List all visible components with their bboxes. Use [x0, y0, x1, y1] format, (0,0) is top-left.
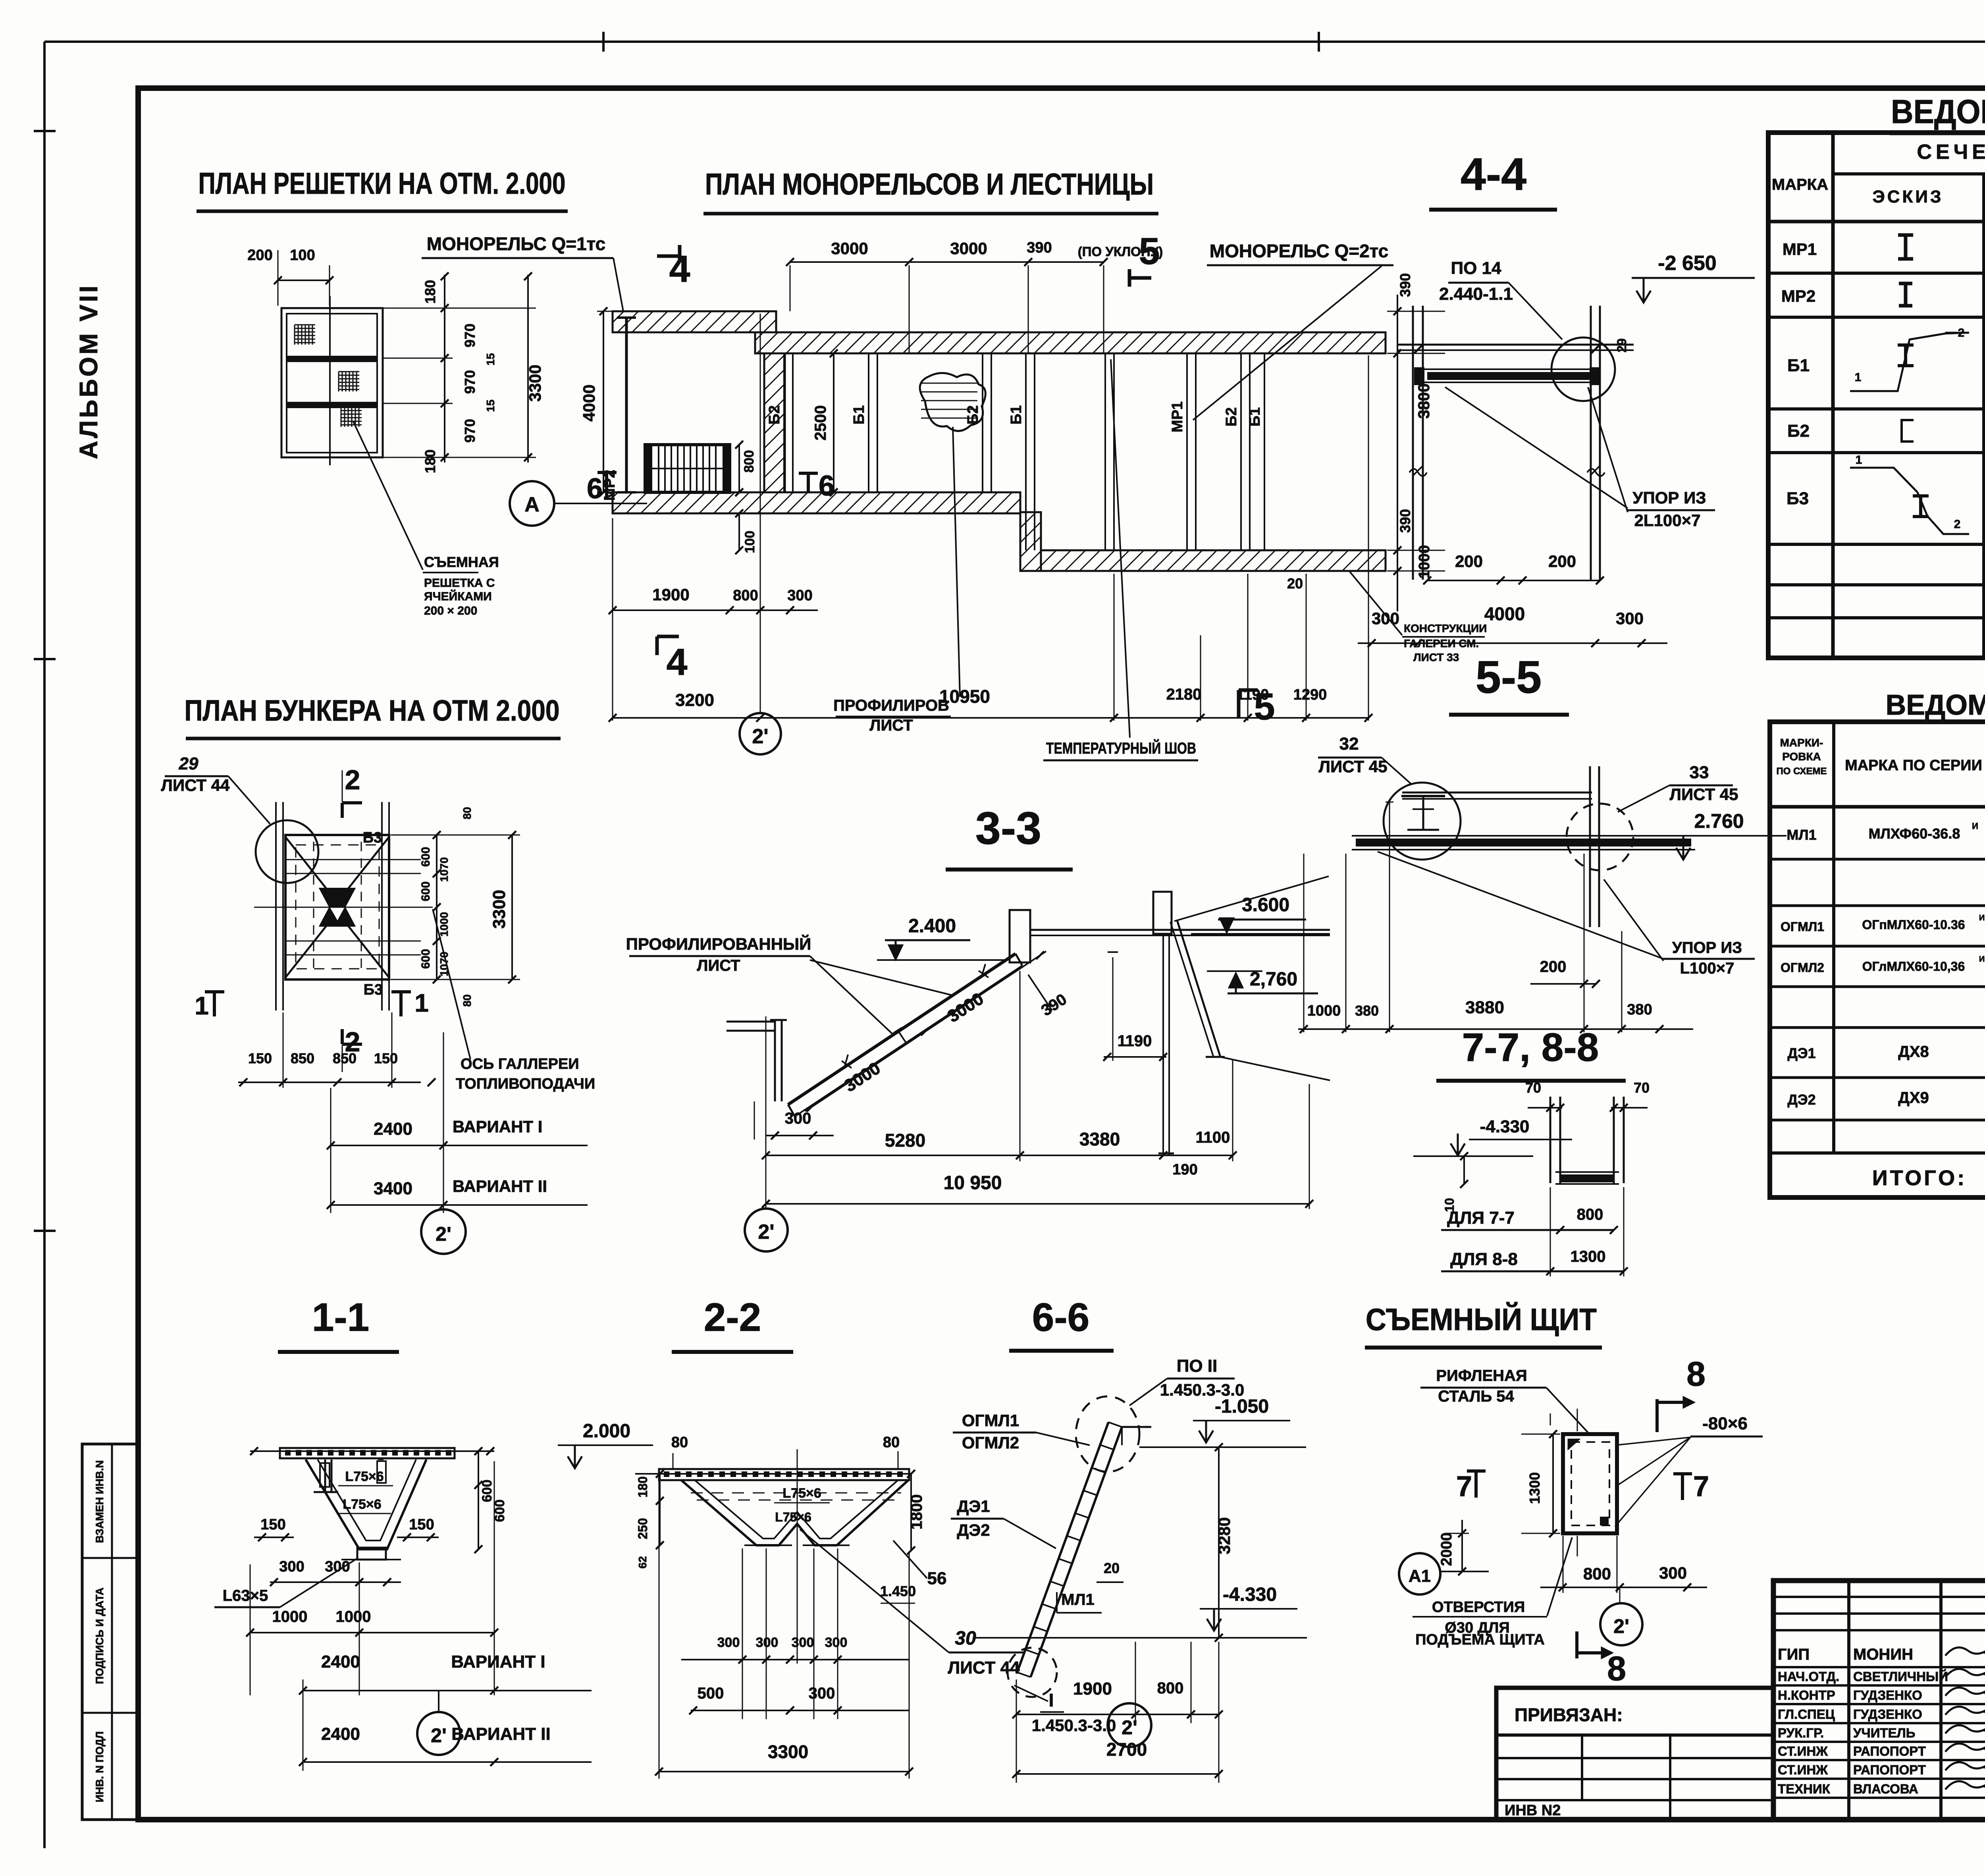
svg-text:ТЕХНИК: ТЕХНИК: [1778, 1782, 1831, 1796]
svg-text:1070: 1070: [438, 857, 450, 882]
svg-text:ОГпМЛХ60-10.36: ОГпМЛХ60-10.36: [1862, 918, 1965, 932]
svg-text:Б3: Б3: [364, 981, 383, 998]
svg-text:ВАРИАНТ I: ВАРИАНТ I: [451, 1652, 545, 1672]
svg-text:390: 390: [1397, 509, 1413, 533]
svg-text:-4.330: -4.330: [1480, 1117, 1530, 1136]
svg-text:А: А: [524, 493, 540, 516]
svg-text:2': 2': [758, 1220, 774, 1244]
svg-text:УЧИТЕЛЬ: УЧИТЕЛЬ: [1853, 1726, 1915, 1740]
svg-text:ВЕДОМОСТЬ ЭЛЕМЕНТОВ ПО СЕРИИ 1: ВЕДОМОСТЬ ЭЛЕМЕНТОВ ПО СЕРИИ 1.4503-3В0: [1886, 689, 1985, 721]
svg-text:МАРКИ-: МАРКИ-: [1780, 737, 1823, 749]
svg-text:L63×5: L63×5: [223, 1587, 268, 1604]
svg-text:СВЕТЛИЧНЫЙ: СВЕТЛИЧНЫЙ: [1853, 1669, 1948, 1684]
svg-text:4-4: 4-4: [1461, 149, 1526, 200]
svg-text:УПОР ИЗ: УПОР ИЗ: [1632, 488, 1706, 507]
svg-text:32: 32: [1339, 734, 1359, 754]
svg-text:10 950: 10 950: [944, 1172, 1002, 1193]
svg-text:300: 300: [787, 587, 812, 604]
svg-text:2': 2': [436, 1223, 451, 1245]
svg-text:80: 80: [461, 994, 473, 1006]
svg-text:ГУДЗЕНКО: ГУДЗЕНКО: [1853, 1707, 1922, 1722]
svg-text:150: 150: [248, 1050, 272, 1066]
svg-text:ПЛАН БУНКЕРА НА ОТМ 2.000: ПЛАН БУНКЕРА НА ОТМ 2.000: [185, 694, 560, 727]
svg-text:СТ.ИНЖ: СТ.ИНЖ: [1778, 1744, 1828, 1758]
svg-text:ИНВ N2: ИНВ N2: [1505, 1802, 1561, 1819]
svg-text:ВЗАМЕН ИНВ.N: ВЗАМЕН ИНВ.N: [94, 1460, 106, 1543]
svg-text:И: И: [1979, 955, 1985, 964]
svg-text:150: 150: [374, 1050, 398, 1066]
svg-text:СЕЧЕНИЕ: СЕЧЕНИЕ: [1917, 141, 1985, 164]
svg-text:РАПОПОРТ: РАПОПОРТ: [1853, 1744, 1926, 1758]
svg-text:I: I: [1049, 1690, 1054, 1710]
svg-text:5-5: 5-5: [1476, 652, 1542, 703]
svg-text:100: 100: [742, 531, 757, 553]
svg-text:4000: 4000: [1484, 603, 1525, 624]
svg-text:180: 180: [422, 449, 438, 473]
svg-text:МР1: МР1: [1169, 401, 1186, 432]
svg-text:800: 800: [733, 587, 758, 604]
svg-text:ОГМЛ1: ОГМЛ1: [1781, 920, 1824, 934]
svg-text:-1.050: -1.050: [1215, 1396, 1269, 1417]
svg-text:800: 800: [1583, 1564, 1611, 1583]
svg-text:15: 15: [484, 353, 497, 365]
svg-text:500: 500: [698, 1685, 724, 1702]
svg-text:2-2: 2-2: [704, 1295, 761, 1340]
svg-text:600: 600: [419, 847, 432, 867]
svg-text:ВАРИАНТ II: ВАРИАНТ II: [453, 1177, 547, 1195]
svg-text:И: И: [1972, 821, 1978, 831]
svg-text:600: 600: [419, 949, 432, 969]
svg-text:600: 600: [419, 881, 432, 901]
svg-text:200: 200: [247, 247, 272, 264]
svg-text:5280: 5280: [885, 1130, 925, 1151]
svg-text:1: 1: [1856, 453, 1862, 467]
svg-text:L75×6: L75×6: [782, 1486, 821, 1501]
svg-text:ДЭ1: ДЭ1: [957, 1497, 990, 1515]
svg-text:3380: 3380: [1079, 1129, 1120, 1149]
svg-text:ЭСКИЗ: ЭСКИЗ: [1872, 187, 1943, 206]
svg-text:ВАРИАНТ II: ВАРИАНТ II: [451, 1724, 550, 1744]
svg-text:2: 2: [345, 764, 360, 795]
svg-text:2: 2: [1958, 326, 1965, 339]
svg-text:2400: 2400: [374, 1119, 412, 1139]
svg-text:100: 100: [290, 247, 315, 264]
svg-text:ПЛАН МОНОРЕЛЬСОВ И ЛЕСТНИЦЫ: ПЛАН МОНОРЕЛЬСОВ И ЛЕСТНИЦЫ: [705, 168, 1154, 201]
svg-text:ЛИСТ: ЛИСТ: [869, 717, 913, 734]
svg-text:800: 800: [742, 450, 757, 473]
svg-text:150: 150: [409, 1516, 434, 1533]
svg-text:3400: 3400: [374, 1179, 412, 1198]
svg-text:ПРОФИЛИРОВАННЫЙ: ПРОФИЛИРОВАННЫЙ: [626, 934, 811, 953]
svg-text:СТ.ИНЖ: СТ.ИНЖ: [1778, 1762, 1828, 1777]
svg-text:1: 1: [1855, 371, 1862, 384]
svg-text:15: 15: [484, 399, 497, 412]
svg-text:3000: 3000: [831, 239, 868, 258]
svg-text:300: 300: [1372, 609, 1399, 628]
svg-text:300: 300: [279, 1558, 304, 1575]
svg-text:1900: 1900: [1073, 1679, 1112, 1699]
svg-text:А1: А1: [1409, 1566, 1431, 1586]
svg-text:ВАРИАНТ I: ВАРИАНТ I: [453, 1117, 542, 1136]
svg-text:2180: 2180: [1166, 686, 1202, 703]
svg-text:4: 4: [667, 641, 688, 683]
svg-text:200 × 200: 200 × 200: [424, 604, 477, 617]
svg-text:ДХ8: ДХ8: [1898, 1043, 1929, 1060]
svg-text:190: 190: [1172, 1161, 1197, 1178]
svg-text:1190: 1190: [1118, 1032, 1152, 1050]
svg-text:2700: 2700: [1106, 1739, 1147, 1760]
svg-text:L75×6: L75×6: [343, 1497, 381, 1512]
svg-text:970: 970: [462, 419, 478, 443]
svg-text:ЛИСТ 44: ЛИСТ 44: [161, 776, 230, 794]
svg-text:КОНСТРУКЦИИ: КОНСТРУКЦИИ: [1404, 622, 1487, 634]
svg-text:РУК.ГР.: РУК.ГР.: [1778, 1726, 1824, 1740]
svg-text:Б2: Б2: [1223, 407, 1240, 426]
svg-text:ВЕДОМОСТЬ ЭЛЕМЕНТОВ: ВЕДОМОСТЬ ЭЛЕМЕНТОВ: [1891, 93, 1985, 130]
svg-text:МР1: МР1: [1783, 240, 1817, 258]
svg-text:1000: 1000: [438, 912, 450, 937]
svg-text:МЛ1: МЛ1: [1061, 1591, 1095, 1608]
svg-text:ТЕМПЕРАТУРНЫЙ ШОВ: ТЕМПЕРАТУРНЫЙ ШОВ: [1046, 739, 1196, 757]
svg-text:10950: 10950: [939, 686, 990, 707]
svg-text:УПОР ИЗ: УПОР ИЗ: [1672, 939, 1742, 956]
svg-text:ГУДЗЕНКО: ГУДЗЕНКО: [1853, 1688, 1922, 1702]
svg-text:1000: 1000: [336, 1608, 371, 1625]
svg-text:Б1: Б1: [851, 405, 867, 424]
svg-text:НАЧ.ОТД.: НАЧ.ОТД.: [1778, 1669, 1839, 1684]
svg-text:-2 650: -2 650: [1658, 252, 1716, 275]
svg-text:МР2: МР2: [1781, 287, 1815, 305]
svg-text:ЯЧЕЙКАМИ: ЯЧЕЙКАМИ: [424, 590, 492, 603]
svg-text:2': 2': [431, 1724, 447, 1747]
svg-text:-80×6: -80×6: [1702, 1414, 1748, 1433]
svg-text:2400: 2400: [321, 1652, 360, 1672]
svg-text:РИФЛЕНАЯ: РИФЛЕНАЯ: [1436, 1367, 1527, 1384]
svg-text:Б3: Б3: [1786, 489, 1809, 508]
svg-text:850: 850: [291, 1050, 314, 1066]
svg-text:ДХ9: ДХ9: [1898, 1089, 1929, 1107]
svg-text:2': 2': [1122, 1716, 1137, 1739]
svg-text:3000: 3000: [950, 239, 987, 258]
svg-text:ДЭ1: ДЭ1: [1787, 1045, 1815, 1061]
svg-text:600: 600: [480, 1480, 495, 1502]
svg-text:1190: 1190: [1236, 686, 1269, 703]
svg-text:850: 850: [333, 1050, 357, 1066]
svg-text:ОТВЕРСТИЯ: ОТВЕРСТИЯ: [1432, 1599, 1525, 1616]
svg-text:300: 300: [1659, 1564, 1687, 1582]
svg-text:6-6: 6-6: [1032, 1295, 1090, 1340]
svg-text:ОГМЛ2: ОГМЛ2: [1781, 960, 1824, 975]
svg-text:АЛЬБОМ VII: АЛЬБОМ VII: [74, 283, 103, 459]
svg-text:ПО СХЕМЕ: ПО СХЕМЕ: [1776, 766, 1827, 777]
svg-text:3.600: 3.600: [1242, 895, 1289, 916]
svg-text:ДЛЯ 8-8: ДЛЯ 8-8: [1450, 1249, 1518, 1269]
svg-text:2.760: 2.760: [1694, 810, 1744, 832]
svg-text:20: 20: [1287, 575, 1303, 592]
svg-text:ОГМЛ1: ОГМЛ1: [962, 1411, 1019, 1430]
svg-text:300: 300: [325, 1558, 350, 1575]
svg-text:2': 2': [752, 725, 768, 748]
svg-text:2.000: 2.000: [583, 1421, 630, 1442]
svg-text:2.440-1.1: 2.440-1.1: [1439, 284, 1513, 304]
svg-text:8: 8: [1686, 1355, 1706, 1393]
svg-text:56: 56: [927, 1569, 947, 1588]
svg-text:-4.330: -4.330: [1223, 1584, 1277, 1605]
svg-text:Б3: Б3: [363, 829, 382, 846]
svg-text:1300: 1300: [1571, 1248, 1606, 1265]
svg-text:4000: 4000: [580, 384, 598, 421]
svg-text:300: 300: [809, 1685, 835, 1702]
svg-text:2.400: 2.400: [908, 916, 956, 937]
svg-text:3880: 3880: [1465, 998, 1504, 1017]
svg-text:МОНОРЕЛЬС Q=1тс: МОНОРЕЛЬС Q=1тс: [427, 233, 605, 254]
svg-text:6: 6: [819, 470, 834, 502]
svg-text:МАРКА ПО СЕРИИ: МАРКА ПО СЕРИИ: [1845, 757, 1982, 774]
svg-text:300: 300: [1616, 609, 1644, 628]
svg-text:80: 80: [883, 1434, 900, 1451]
svg-text:62: 62: [636, 1556, 649, 1568]
svg-text:ОСЬ ГАЛЛЕРЕИ: ОСЬ ГАЛЛЕРЕИ: [461, 1056, 579, 1072]
svg-text:1100: 1100: [1196, 1129, 1230, 1146]
svg-text:Б2: Б2: [1787, 421, 1810, 441]
svg-text:МЛХФ60-36.8: МЛХФ60-36.8: [1869, 825, 1960, 842]
svg-text:ГИП: ГИП: [1778, 1646, 1810, 1663]
svg-text:7-7, 8-8: 7-7, 8-8: [1462, 1025, 1599, 1070]
svg-text:250: 250: [636, 1518, 650, 1539]
svg-text:МОНИН: МОНИН: [1853, 1646, 1913, 1663]
svg-text:СТАЛЬ 54: СТАЛЬ 54: [1438, 1388, 1514, 1405]
svg-text:3300: 3300: [768, 1741, 808, 1762]
svg-text:1: 1: [195, 991, 209, 1020]
svg-text:2500: 2500: [812, 405, 829, 441]
svg-text:5: 5: [1139, 230, 1160, 272]
svg-text:3280: 3280: [1215, 1517, 1233, 1554]
svg-text:ЛИСТ 44: ЛИСТ 44: [948, 1658, 1020, 1677]
svg-text:ПО 14: ПО 14: [1451, 258, 1501, 278]
svg-text:6: 6: [587, 473, 603, 505]
svg-text:3800: 3800: [1415, 384, 1433, 419]
svg-text:ОГМЛ2: ОГМЛ2: [962, 1433, 1019, 1452]
svg-text:МАРКА: МАРКА: [1772, 176, 1828, 193]
svg-text:1-1: 1-1: [312, 1295, 370, 1340]
svg-text:300: 300: [756, 1635, 779, 1650]
svg-text:80: 80: [671, 1434, 688, 1451]
svg-text:390: 390: [1397, 273, 1413, 297]
svg-text:300: 300: [825, 1635, 848, 1650]
svg-text:800: 800: [1157, 1679, 1184, 1697]
svg-text:1.450.3-3.0: 1.450.3-3.0: [1032, 1716, 1116, 1735]
svg-text:ОГлМЛХ60-10,36: ОГлМЛХ60-10,36: [1862, 959, 1965, 974]
svg-text:970: 970: [462, 370, 478, 394]
svg-text:ПО II: ПО II: [1177, 1356, 1218, 1376]
svg-text:8: 8: [1607, 1650, 1626, 1688]
svg-text:ЛИСТ 33: ЛИСТ 33: [1413, 651, 1459, 663]
svg-text:ПРИВЯЗАН:: ПРИВЯЗАН:: [1515, 1704, 1623, 1725]
svg-text:1290: 1290: [1293, 686, 1327, 703]
svg-text:390: 390: [1027, 239, 1052, 256]
svg-text:СЪЕМНАЯ: СЪЕМНАЯ: [424, 554, 499, 570]
svg-text:ПРОФИЛИРОВ: ПРОФИЛИРОВ: [833, 697, 949, 714]
svg-text:Н.КОНТР: Н.КОНТР: [1778, 1688, 1835, 1702]
svg-text:3200: 3200: [675, 690, 714, 710]
svg-text:Б1: Б1: [1008, 405, 1025, 424]
svg-text:1900: 1900: [652, 585, 689, 604]
svg-text:29: 29: [1615, 338, 1629, 353]
svg-text:ПОДПИСЬ И ДАТА: ПОДПИСЬ И ДАТА: [94, 1587, 106, 1684]
svg-text:2000: 2000: [1438, 1533, 1455, 1566]
svg-text:ТОПЛИВОПОДАЧИ: ТОПЛИВОПОДАЧИ: [456, 1076, 595, 1092]
svg-text:20: 20: [1104, 1560, 1120, 1576]
svg-text:МЛ1: МЛ1: [1786, 827, 1816, 843]
svg-text:380: 380: [1355, 1003, 1379, 1019]
svg-text:ГЛ.СПЕЦ: ГЛ.СПЕЦ: [1778, 1707, 1835, 1722]
svg-text:ВЛАСОВА: ВЛАСОВА: [1853, 1782, 1918, 1796]
svg-text:3300: 3300: [526, 364, 544, 401]
svg-text:200: 200: [1540, 958, 1567, 976]
svg-text:ДЛЯ 7-7: ДЛЯ 7-7: [1447, 1208, 1515, 1228]
svg-text:ДЭ2: ДЭ2: [957, 1521, 990, 1539]
svg-text:150: 150: [260, 1516, 285, 1533]
svg-text:ДЭ2: ДЭ2: [1787, 1091, 1815, 1108]
svg-text:29: 29: [179, 754, 198, 773]
svg-text:380: 380: [1627, 1001, 1652, 1018]
svg-text:1: 1: [414, 989, 429, 1017]
svg-text:1000: 1000: [272, 1608, 308, 1625]
svg-text:970: 970: [462, 324, 478, 347]
svg-text:2L100×7: 2L100×7: [1634, 511, 1701, 530]
svg-text:Б2: Б2: [766, 405, 783, 424]
svg-text:ИТОГО:: ИТОГО:: [1872, 1166, 1967, 1190]
svg-text:2: 2: [1954, 518, 1961, 531]
svg-text:200: 200: [1455, 552, 1483, 571]
svg-text:ЛИСТ: ЛИСТ: [697, 957, 740, 974]
svg-text:2400: 2400: [321, 1724, 360, 1744]
svg-text:800: 800: [1577, 1206, 1603, 1223]
svg-text:ПОДЪЕМА ЩИТА: ПОДЪЕМА ЩИТА: [1415, 1631, 1545, 1648]
svg-text:МОНОРЕЛЬС Q=2тс: МОНОРЕЛЬС Q=2тс: [1210, 241, 1388, 261]
svg-text:РЕШЕТКА С: РЕШЕТКА С: [424, 576, 495, 590]
svg-text:ИНВ. N ПОДЛ: ИНВ. N ПОДЛ: [94, 1731, 106, 1803]
svg-text:7: 7: [1456, 1471, 1472, 1502]
svg-text:7: 7: [1693, 1471, 1709, 1502]
svg-text:80: 80: [461, 807, 473, 819]
svg-text:300: 300: [785, 1110, 811, 1127]
svg-text:1000: 1000: [1307, 1003, 1341, 1019]
svg-text:70: 70: [1525, 1080, 1541, 1096]
svg-text:300: 300: [792, 1635, 814, 1650]
svg-text:3300: 3300: [490, 890, 509, 929]
svg-text:L100×7: L100×7: [1680, 960, 1734, 977]
svg-text:РАПОПОРТ: РАПОПОРТ: [1853, 1762, 1926, 1777]
svg-text:L75×6: L75×6: [345, 1469, 384, 1484]
svg-text:1300: 1300: [1526, 1472, 1543, 1504]
svg-text:ЛИСТ 45: ЛИСТ 45: [1319, 757, 1388, 776]
svg-text:33: 33: [1690, 763, 1709, 782]
svg-text:70: 70: [1634, 1080, 1650, 1096]
svg-text:3-3: 3-3: [975, 803, 1041, 854]
svg-text:ПЛАН РЕШЕТКИ НА ОТМ. 2.000: ПЛАН РЕШЕТКИ НА ОТМ. 2.000: [198, 167, 566, 201]
svg-text:2': 2': [1613, 1615, 1629, 1637]
svg-text:Б1: Б1: [1787, 356, 1810, 375]
svg-text:200: 200: [1548, 552, 1576, 571]
svg-text:ЛИСТ 45: ЛИСТ 45: [1670, 785, 1738, 804]
svg-text:180: 180: [422, 280, 438, 304]
svg-text:РОВКА: РОВКА: [1782, 750, 1821, 763]
svg-text:СЪЕМНЫЙ ЩИТ: СЪЕМНЫЙ ЩИТ: [1366, 1302, 1597, 1337]
svg-text:1.450: 1.450: [880, 1583, 916, 1599]
svg-text:Б1: Б1: [1247, 407, 1263, 426]
svg-text:300: 300: [717, 1635, 740, 1650]
svg-text:L75×6: L75×6: [775, 1510, 811, 1524]
svg-text:180: 180: [636, 1476, 650, 1497]
svg-text:И: И: [1979, 914, 1985, 922]
